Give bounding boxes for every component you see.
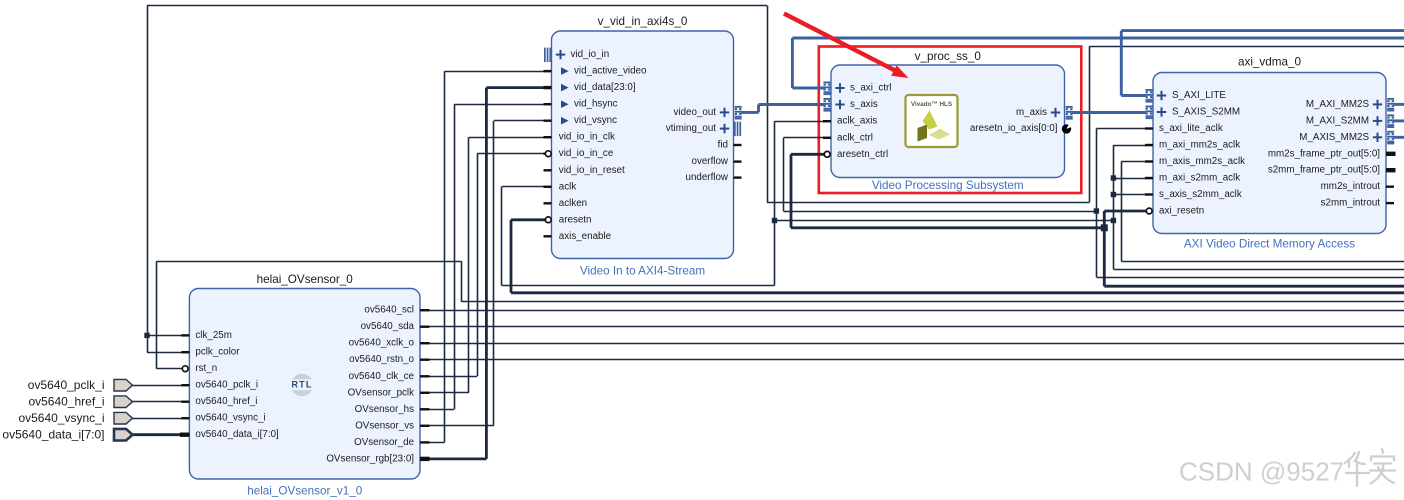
svg-text:vid_vsync: vid_vsync xyxy=(574,115,617,126)
port aclk_ctrl (v_proc left) xyxy=(823,132,873,143)
svg-text:S_AXI_LITE: S_AXI_LITE xyxy=(1172,90,1226,101)
block axi_vdma_0 xyxy=(1153,73,1386,234)
svg-text:ov5640_xclk_o: ov5640_xclk_o xyxy=(349,338,415,349)
svg-text:ov5640_pclk_i: ov5640_pclk_i xyxy=(28,378,105,392)
svg-text:ov5640_rstn_o: ov5640_rstn_o xyxy=(349,354,414,365)
port pclk_color (OVsensor left) xyxy=(181,347,240,358)
svg-text:ov5640_scl: ov5640_scl xyxy=(364,305,414,316)
svg-text:vid_io_in_ce: vid_io_in_ce xyxy=(559,148,614,159)
port vid_io_in_ce (v_vid left) xyxy=(544,148,614,159)
label helai_OVsensor_v1_0 xyxy=(247,485,363,498)
port aclken (v_vid left) xyxy=(544,198,588,209)
wire ov5640_href_i xyxy=(133,401,191,403)
wire ov5640_data_i bus xyxy=(132,433,191,436)
svg-text:helai_OVsensor_0: helai_OVsensor_0 xyxy=(257,273,354,286)
wire aclk net xyxy=(502,121,1404,285)
wire ov5640_vsync_i xyxy=(133,418,191,420)
svg-text:overflow: overflow xyxy=(692,156,729,167)
wire M_AXIS_MM2S out (blue) xyxy=(1394,136,1404,139)
port mm2s_frame_ptr_out[5:0] (axi_vdma right) xyxy=(1268,148,1396,159)
svg-text:vid_io_in: vid_io_in xyxy=(571,49,610,60)
svg-text:ov5640_data_i[7:0]: ov5640_data_i[7:0] xyxy=(2,428,104,442)
wire video_out to s_axis (blue) xyxy=(741,105,825,113)
svg-text:s2mm_introut: s2mm_introut xyxy=(1321,198,1381,209)
svg-text:M_AXI_MM2S: M_AXI_MM2S xyxy=(1306,99,1370,110)
wire OVsensor_hs to vid_hsync xyxy=(420,104,552,409)
svg-text:aresetn_io_axis[0:0]: aresetn_io_axis[0:0] xyxy=(970,123,1058,134)
junction clk_25m xyxy=(144,333,149,338)
wire OVsensor_vs to vid_vsync xyxy=(420,121,552,426)
port axis_enable (v_vid left) xyxy=(544,231,612,242)
external port ov5640_data_i[7:0] xyxy=(2,428,132,442)
wire ov5640_clk_ce to vid_io_in_ce xyxy=(420,154,545,377)
port fid (v_vid right) xyxy=(718,140,742,151)
port vid_io_in (v_vid left) xyxy=(544,48,609,63)
wire OVsensor_rgb to vid_data bus xyxy=(420,88,552,459)
label AXI Video Direct Memory Access xyxy=(1184,237,1355,250)
svg-text:OVsensor_rgb[23:0]: OVsensor_rgb[23:0] xyxy=(326,453,414,464)
wire v_proc aresetn net xyxy=(791,154,1404,286)
title axi_vdma_0 xyxy=(1238,56,1302,69)
wire aclk_ctrl net xyxy=(784,129,1404,278)
wire OVsensor_de to vid_active_video xyxy=(420,71,552,442)
port ov5640_rstn_o (OVsensor right) xyxy=(349,354,429,365)
wire M_AXI_S2MM out (blue) xyxy=(1394,119,1404,122)
block v_vid_in_axi4s_0 xyxy=(552,31,734,259)
svg-text:OVsensor_pclk: OVsensor_pclk xyxy=(348,387,415,398)
svg-text:s2mm_frame_ptr_out[5:0]: s2mm_frame_ptr_out[5:0] xyxy=(1268,165,1380,176)
junction aclk s_axis_s2mm_aclk xyxy=(1111,192,1116,197)
port ov5640_data_i[7:0] (OVsensor left) xyxy=(180,429,279,440)
svg-text:OVsensor_de: OVsensor_de xyxy=(354,437,414,448)
highlight red rectangle xyxy=(819,47,1082,194)
svg-text:clk_25m: clk_25m xyxy=(195,330,231,341)
svg-text:M_AXIS_MM2S: M_AXIS_MM2S xyxy=(1299,132,1369,143)
port OVsensor_pclk (OVsensor right) xyxy=(348,387,430,398)
port overflow (v_vid right) xyxy=(692,156,742,167)
svg-text:aclken: aclken xyxy=(559,198,587,209)
svg-text:aclk_ctrl: aclk_ctrl xyxy=(837,132,873,143)
port S_AXI_LITE (axi_vdma left) xyxy=(1146,89,1227,103)
junction v_proc aresetn xyxy=(1101,224,1108,231)
port aresetn_ctrl (v_proc left) xyxy=(824,149,888,160)
wire rst_n net xyxy=(157,261,1404,369)
svg-text:Video Processing Subsystem: Video Processing Subsystem xyxy=(872,179,1024,192)
title v_vid_in_axi4s_0 xyxy=(598,15,688,28)
port aclk_axis (v_proc left) xyxy=(823,116,877,127)
wire AXI S_AXI_LITE (blue) xyxy=(1121,31,1404,96)
svg-text:ov5640_sda: ov5640_sda xyxy=(361,321,415,332)
wire M_AXI_MM2S out (blue) xyxy=(1394,103,1404,106)
svg-text:Vivado™ HLS: Vivado™ HLS xyxy=(911,101,952,108)
port ov5640_vsync_i (OVsensor left) xyxy=(181,413,265,424)
external port ov5640_href_i xyxy=(28,395,132,409)
port vid_data[23:0] (v_vid left) xyxy=(544,82,636,93)
title helai_OVsensor_0 xyxy=(257,273,354,286)
port vtiming_out (v_vid right) xyxy=(666,122,741,137)
port m_axi_mm2s_aclk (axi_vdma left) xyxy=(1145,140,1240,151)
port vid_io_in_reset (v_vid left) xyxy=(544,165,625,176)
svg-text:m_axi_mm2s_aclk: m_axi_mm2s_aclk xyxy=(1159,140,1240,151)
wire clk_25m net (top-left loop) xyxy=(147,6,1404,353)
wire v_vid aresetn net xyxy=(511,220,1404,293)
wire m_axis_mm2s_aclk net xyxy=(1121,162,1404,262)
port vid_active_video (v_vid left) xyxy=(544,66,647,77)
svg-text:ov5640_href_i: ov5640_href_i xyxy=(28,395,104,409)
port axi_resetn (axi_vdma left) xyxy=(1146,206,1204,217)
external port ov5640_vsync_i xyxy=(18,411,132,425)
port aresetn (v_vid left) xyxy=(544,214,592,225)
port ov5640_clk_ce (OVsensor right) xyxy=(349,371,430,382)
port vid_vsync (v_vid left) xyxy=(544,115,618,126)
svg-text:Video In to AXI4-Stream: Video In to AXI4-Stream xyxy=(580,264,705,277)
svg-text:aclk: aclk xyxy=(559,181,577,192)
svg-text:ov5640_clk_ce: ov5640_clk_ce xyxy=(349,371,415,382)
svg-text:m_axi_s2mm_aclk: m_axi_s2mm_aclk xyxy=(1159,173,1240,184)
svg-text:axi_resetn: axi_resetn xyxy=(1159,206,1204,217)
svg-text:aclk_axis: aclk_axis xyxy=(837,116,877,127)
wire ov5640_sda xyxy=(420,326,1404,328)
svg-text:axi_vdma_0: axi_vdma_0 xyxy=(1238,56,1302,69)
port clk_25m (OVsensor left) xyxy=(181,330,231,341)
svg-text:OVsensor_hs: OVsensor_hs xyxy=(355,404,414,415)
svg-text:RTL: RTL xyxy=(291,380,312,390)
svg-text:AXI Video Direct Memory Access: AXI Video Direct Memory Access xyxy=(1184,237,1355,250)
Vivado HLS logo xyxy=(906,95,958,147)
svg-text:aresetn_ctrl: aresetn_ctrl xyxy=(837,149,888,160)
port OVsensor_hs (OVsensor right) xyxy=(355,404,430,415)
svg-text:v_vid_in_axi4s_0: v_vid_in_axi4s_0 xyxy=(598,15,688,28)
svg-text:CSDN @9527: CSDN @9527 xyxy=(1179,457,1344,487)
port s_axis (v_proc left) xyxy=(824,98,878,112)
port ov5640_scl (OVsensor right) xyxy=(364,305,429,316)
port OVsensor_de (OVsensor right) xyxy=(354,437,429,448)
port vid_hsync (v_vid left) xyxy=(544,99,618,110)
svg-text:vtiming_out: vtiming_out xyxy=(666,123,716,134)
svg-text:ov5640_vsync_i: ov5640_vsync_i xyxy=(195,413,265,424)
svg-text:rst_n: rst_n xyxy=(195,363,217,374)
svg-text:OVsensor_vs: OVsensor_vs xyxy=(355,420,414,431)
watermark CSDN xyxy=(1179,449,1395,487)
port m_axi_s2mm_aclk (axi_vdma left) xyxy=(1145,173,1240,184)
port ov5640_sda (OVsensor right) xyxy=(361,321,430,332)
svg-text:aresetn: aresetn xyxy=(559,214,592,225)
svg-text:s_axi_lite_aclk: s_axi_lite_aclk xyxy=(1159,123,1223,134)
svg-text:video_out: video_out xyxy=(674,107,717,118)
port s_axi_lite_aclk (axi_vdma left) xyxy=(1145,123,1223,134)
svg-text:underflow: underflow xyxy=(686,172,729,183)
port aclk (v_vid left) xyxy=(544,181,577,192)
svg-text:ov5640_vsync_i: ov5640_vsync_i xyxy=(18,411,104,425)
port s2mm_frame_ptr_out[5:0] (axi_vdma right) xyxy=(1268,165,1396,176)
svg-text:mm2s_introut: mm2s_introut xyxy=(1321,181,1381,192)
svg-text:helai_OVsensor_v1_0: helai_OVsensor_v1_0 xyxy=(247,485,363,498)
svg-text:vid_data[23:0]: vid_data[23:0] xyxy=(574,82,636,93)
port S_AXIS_S2MM (axi_vdma left) xyxy=(1146,106,1241,120)
port aresetn_io_axis[0:0] (v_proc right) xyxy=(970,123,1072,134)
port video_out (v_vid right) xyxy=(674,106,742,120)
svg-text:ov5640_data_i[7:0]: ov5640_data_i[7:0] xyxy=(195,429,279,440)
svg-text:M_AXI_S2MM: M_AXI_S2MM xyxy=(1306,115,1369,126)
title v_proc_ss_0 xyxy=(915,50,982,63)
block v_proc_ss_0 xyxy=(831,65,1065,178)
label Video Processing Subsystem xyxy=(872,179,1024,192)
port underflow (v_vid right) xyxy=(686,172,742,183)
svg-text:S_AXIS_S2MM: S_AXIS_S2MM xyxy=(1172,107,1240,118)
wire ov5640_xclk_o xyxy=(420,343,1404,345)
wire m_axis to S_AXIS_S2MM (blue) xyxy=(1072,111,1146,114)
port s_axi_ctrl (v_proc left) xyxy=(824,82,892,96)
junction aclk at aclk_axis column xyxy=(772,218,777,223)
port M_AXIS_MM2S (axi_vdma right) xyxy=(1299,131,1394,145)
junction aclk bottom xyxy=(1111,218,1116,223)
svg-text:vid_hsync: vid_hsync xyxy=(574,99,618,110)
port M_AXI_MM2S (axi_vdma right) xyxy=(1306,98,1394,112)
block helai_OVsensor_0 xyxy=(189,289,420,480)
svg-text:vid_io_in_reset: vid_io_in_reset xyxy=(559,165,625,176)
junction aclk_ctrl net xyxy=(1094,208,1099,213)
port s2mm_introut (axi_vdma right) xyxy=(1321,198,1394,209)
svg-text:pclk_color: pclk_color xyxy=(195,347,240,358)
svg-text:vid_active_video: vid_active_video xyxy=(574,66,647,77)
junction aclk m_axi_s2mm_aclk xyxy=(1111,175,1116,180)
wire ov5640_rstn_o xyxy=(420,359,1404,361)
port OVsensor_rgb[23:0] (OVsensor right) xyxy=(326,453,429,464)
svg-text:s_axis: s_axis xyxy=(850,99,878,110)
svg-text:m_axis_mm2s_aclk: m_axis_mm2s_aclk xyxy=(1159,156,1245,167)
port ov5640_pclk_i (OVsensor left) xyxy=(181,380,258,391)
label Video In to AXI4-Stream xyxy=(580,264,705,277)
port m_axis (v_proc right) xyxy=(1016,106,1073,120)
svg-text:m_axis: m_axis xyxy=(1016,107,1047,118)
port s_axis_s2mm_aclk (axi_vdma left) xyxy=(1145,189,1242,200)
external port ov5640_pclk_i xyxy=(28,378,133,392)
svg-text:axis_enable: axis_enable xyxy=(559,231,612,242)
port ov5640_href_i (OVsensor left) xyxy=(181,396,257,407)
RTL logo xyxy=(290,374,315,396)
wire AXI s_axi_ctrl (blue) xyxy=(792,38,1404,88)
wire OVsensor_pclk to vid_io_in_clk xyxy=(420,137,552,393)
port M_AXI_S2MM (axi_vdma right) xyxy=(1306,114,1394,128)
svg-text:vid_io_in_clk: vid_io_in_clk xyxy=(559,132,615,143)
svg-text:mm2s_frame_ptr_out[5:0]: mm2s_frame_ptr_out[5:0] xyxy=(1268,148,1380,159)
svg-text:ov5640_href_i: ov5640_href_i xyxy=(195,396,257,407)
svg-text:v_proc_ss_0: v_proc_ss_0 xyxy=(915,50,982,63)
annotation red arrow xyxy=(784,14,909,79)
wire ov5640_scl xyxy=(420,310,1404,312)
wire ov5640_pclk_i xyxy=(133,385,191,387)
port mm2s_introut (axi_vdma right) xyxy=(1321,181,1394,192)
port rst_n (OVsensor left) xyxy=(182,363,217,374)
svg-text:ov5640_pclk_i: ov5640_pclk_i xyxy=(195,380,258,391)
svg-text:fid: fid xyxy=(718,140,728,151)
svg-text:s_axi_ctrl: s_axi_ctrl xyxy=(850,83,891,94)
svg-text:s_axis_s2mm_aclk: s_axis_s2mm_aclk xyxy=(1159,189,1242,200)
port vid_io_in_clk (v_vid left) xyxy=(544,132,615,143)
port m_axis_mm2s_aclk (axi_vdma left) xyxy=(1145,156,1245,167)
port OVsensor_vs (OVsensor right) xyxy=(355,420,429,431)
port ov5640_xclk_o (OVsensor right) xyxy=(349,338,430,349)
